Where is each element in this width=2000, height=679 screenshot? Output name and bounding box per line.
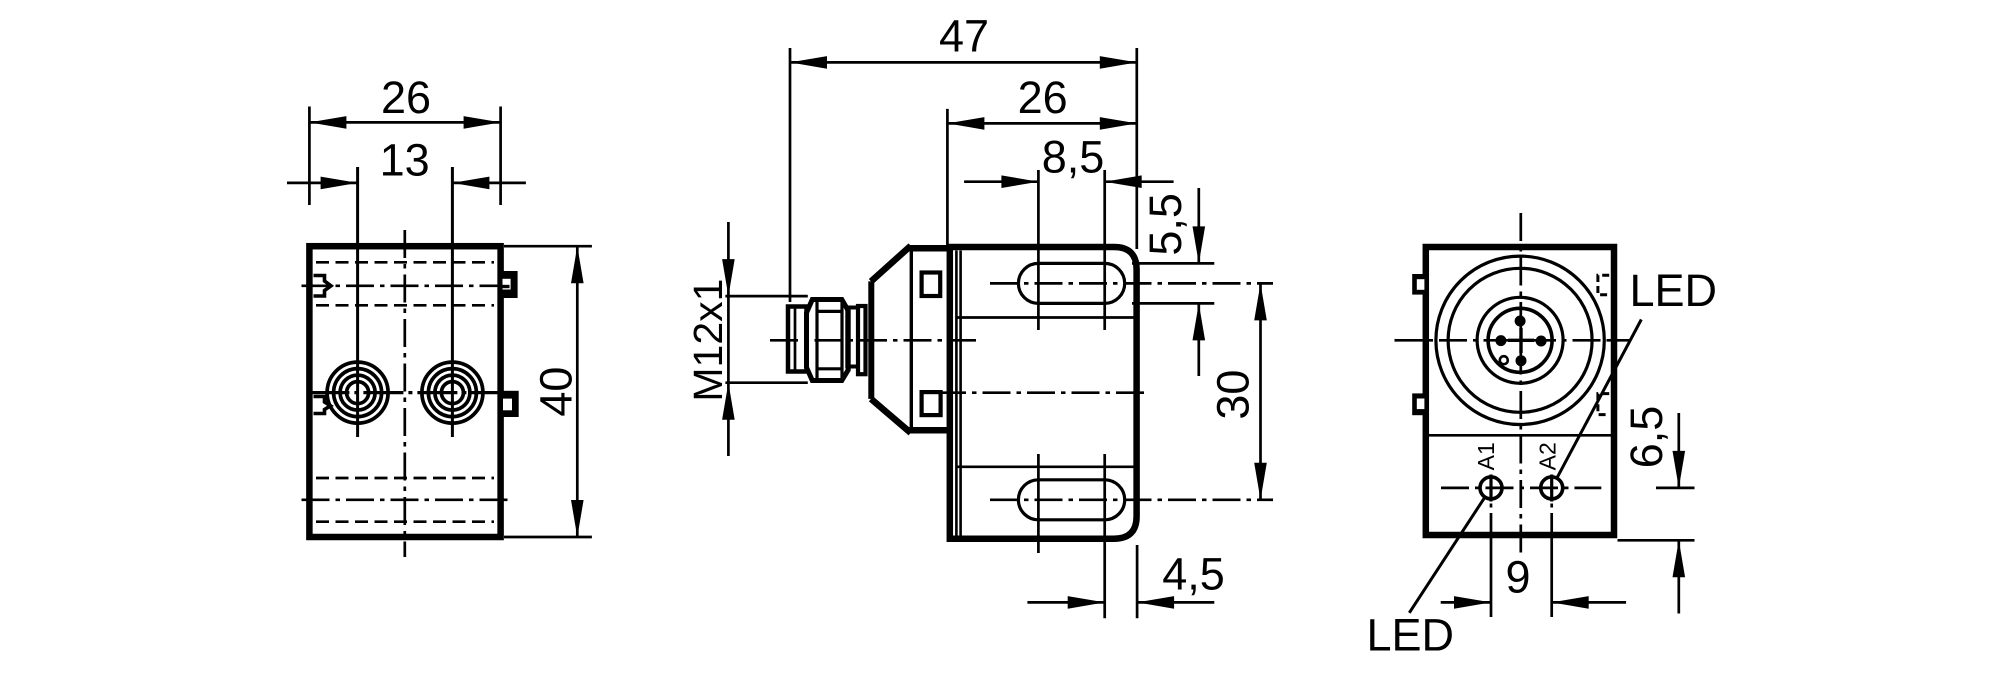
view3 divider edge [1429, 434, 1614, 437]
view1 hidden edge top b [316, 304, 494, 307]
view2 dim 47/26 extension right [1135, 48, 1138, 249]
view2 dim 4.5 line right tail [1137, 601, 1214, 604]
view2 dim M12 arrow top [722, 259, 735, 296]
view2 lower slot axis verticals [1037, 454, 1040, 553]
view2 upper mounting slot [1018, 263, 1124, 303]
view3 connector circle 3 [1477, 297, 1563, 383]
view2 dim 8.5 line left tail [964, 180, 1038, 183]
view3 rear-view body outline [1426, 247, 1614, 535]
svg-text:26: 26 [1018, 72, 1068, 123]
view1 hidden edge bottom a [316, 477, 494, 480]
view3 connector keyway notch [1500, 356, 1508, 364]
view1 front-view body outline [309, 246, 500, 537]
view1 upper-right mounting tab [503, 271, 518, 298]
view2 dim 5.5 line top [1197, 188, 1200, 263]
view2 dim 8.5 arrow right [1105, 175, 1142, 188]
view3 dim 6.5 arrow top [1673, 451, 1686, 488]
view2 cone wide-end edge [910, 247, 913, 432]
view1 horizontal line through coil centers [309, 391, 503, 394]
view3 dim 9 line right tail [1552, 601, 1626, 604]
view2 upper clamp screw square [922, 273, 941, 297]
view2 dim 30 arrow top [1254, 283, 1267, 320]
view3 dim 6.5 line bottom [1677, 540, 1680, 613]
svg-text:9: 9 [1505, 552, 1530, 603]
view2 dim M12 line [727, 222, 730, 456]
view2 dim 26 line [947, 122, 1136, 125]
view3 dim 9 arrow right [1552, 596, 1589, 609]
view3 LED leader top [1557, 320, 1641, 478]
view3 connector pin right [1536, 336, 1547, 347]
svg-text:LED: LED [1367, 610, 1455, 661]
view1 right sensing coil target [422, 362, 483, 423]
view3 upper-left tab [1412, 274, 1425, 295]
view3 connector insert circle [1488, 308, 1552, 372]
view3 dim 9 line left tail [1441, 601, 1491, 604]
view3 connector collar circle 2 [1448, 268, 1592, 412]
view2 dim 47 extension left [789, 48, 792, 302]
view2 dim 8.5 arrow left [1001, 175, 1038, 188]
view1 dim 40 line [576, 246, 579, 537]
view2 housing rear edge [955, 251, 958, 536]
view2 nut chamfer lines [817, 310, 842, 313]
view3 dim 9 arrow left [1454, 596, 1491, 609]
view2 dim 5.5 arrow top [1193, 226, 1206, 263]
view1 dim 26 extension left [308, 107, 311, 206]
view1 dim 26 extension right [499, 107, 502, 206]
view1 dim 13 arrow right [452, 177, 489, 190]
view1 dim 13 line left tail [287, 182, 358, 185]
view2 dim 30 arrow bottom [1254, 463, 1267, 500]
view2 dim 47 arrow left [790, 56, 827, 69]
view2 dim 47 line [790, 61, 1137, 64]
view3 center cross vertical [1519, 328, 1522, 353]
view2 body center line [938, 391, 1144, 394]
view3 center cross horizontal [1508, 339, 1534, 342]
view2 dim 4.5 line left tail [1027, 601, 1104, 604]
view3 dim 9 extension right [1550, 504, 1553, 508]
view2 cone narrow-end edge [868, 281, 874, 399]
view2 dim 5.5 extension top [1132, 262, 1214, 265]
view3 dim 9 extension left [1490, 504, 1493, 508]
svg-text:5,5: 5,5 [1140, 193, 1191, 256]
view3 connector pin top [1515, 316, 1526, 327]
view3 vertical center line [1519, 213, 1522, 554]
view2 connector nut [807, 300, 849, 381]
view2 dim 8.5 line right tail [1105, 180, 1174, 183]
view2 housing top internal edge [957, 316, 1135, 319]
view1 hidden edge bottom b [316, 520, 494, 523]
view1 left sensing coil target [327, 362, 388, 423]
svg-text:4,5: 4,5 [1162, 548, 1225, 599]
view2 dim M12 extension bottom [725, 381, 807, 384]
view3 LED row center line [1441, 487, 1601, 490]
view1 dim 26 line [309, 121, 500, 124]
view1 dim 40 extension bottom [504, 536, 592, 539]
view3 lower-left tab [1412, 393, 1425, 415]
view2 dim M12 arrow bottom [722, 383, 735, 420]
view1 lower-left clamp detail [314, 397, 331, 414]
view2 lower clamp screw square [922, 392, 941, 415]
view2 dim 5.5 extension bottom [1132, 302, 1214, 305]
view3 dim 6.5 line top [1677, 413, 1680, 488]
view1 lower-right mounting tab [503, 391, 519, 417]
view2 dim 4.5 arrow left [1068, 596, 1105, 609]
view2 dim 30 line [1259, 283, 1262, 499]
view1 center line upper mount [302, 284, 509, 287]
view2 dim 4.5 arrow right [1137, 596, 1174, 609]
view2 lower slot center line [990, 498, 1273, 501]
view2 connector neck [847, 308, 858, 367]
view2 connector flange [858, 306, 866, 374]
view1 dim 13 arrow left [321, 177, 358, 190]
view3 dim 6.5 extension top [1656, 487, 1695, 490]
view2 connector axis center line [770, 339, 981, 342]
view3 lower-right hidden tab [1598, 394, 1609, 415]
view2 lower mounting slot [1018, 480, 1124, 520]
view2 collar top edge [908, 245, 950, 252]
view2 dim 26 arrow right [1100, 117, 1137, 130]
view2 housing bottom internal edge [957, 465, 1135, 468]
view3 LED leader bottom [1409, 498, 1484, 613]
view2 thread cylinder [788, 307, 807, 372]
view3 horizontal center line [1395, 339, 1630, 342]
view3 dim 6.5 extension bottom [1618, 539, 1695, 542]
view3 upper-right hidden tab [1598, 275, 1609, 295]
view2 dim 5.5 arrow bottom [1193, 303, 1206, 340]
view2 dim 5.5 line bottom [1197, 303, 1200, 376]
view1 dim 26 arrow right [464, 116, 501, 129]
view2 dim 26 extension left [946, 109, 949, 245]
view2 thread relief line [794, 308, 797, 370]
view3 LED A2 indicator [1541, 477, 1563, 499]
svg-text:A2: A2 [1535, 442, 1561, 470]
svg-text:8,5: 8,5 [1042, 131, 1105, 182]
view2 collar bottom edge [908, 427, 950, 434]
view3 connector pin bottom [1516, 355, 1527, 366]
svg-text:A1: A1 [1473, 442, 1499, 470]
svg-text:47: 47 [939, 11, 989, 62]
view2 dim 4.5 extension right [1136, 545, 1139, 618]
view2 upper slot center line [990, 282, 1273, 285]
svg-text:26: 26 [381, 72, 431, 123]
svg-text:40: 40 [531, 367, 582, 417]
view2 cone top slant [871, 246, 911, 282]
view3 connector pin left [1495, 335, 1506, 346]
view2 dim M12 extension top [725, 295, 807, 298]
view1 center line lower mount [302, 498, 509, 501]
view3 dim 6.5 arrow bottom [1673, 540, 1686, 577]
view1 hidden edge top a [316, 261, 494, 264]
view1 dim 40 arrow top [571, 246, 584, 283]
view1 dim 26 arrow left [309, 116, 346, 129]
view2 cone bottom slant [871, 399, 911, 433]
view1 sensing axis line left [356, 167, 359, 437]
view2 dim 26 arrow left [947, 117, 984, 130]
svg-text:30: 30 [1208, 370, 1259, 420]
svg-text:6,5: 6,5 [1621, 406, 1672, 469]
view1 upper-left clamp detail [314, 276, 332, 297]
view2 nut inner verticals [815, 300, 818, 380]
svg-text:M12x1: M12x1 [685, 279, 731, 402]
view3 connector collar circle outer [1436, 256, 1604, 424]
view2 upper slot axis verticals [1037, 170, 1040, 330]
view2 bracket body outline [950, 247, 1137, 539]
view1 vertical center line [403, 230, 406, 557]
svg-text:LED: LED [1630, 265, 1718, 316]
view1 dim 40 arrow bottom [571, 500, 584, 537]
view3 LED A1 indicator [1480, 477, 1502, 499]
view1 dim 40 extension top [504, 245, 592, 248]
view1 dim 13 line right tail [452, 182, 526, 185]
svg-text:13: 13 [380, 135, 430, 186]
view1 sensing axis line right [451, 167, 454, 437]
view2 dim 47 arrow right [1100, 56, 1137, 69]
